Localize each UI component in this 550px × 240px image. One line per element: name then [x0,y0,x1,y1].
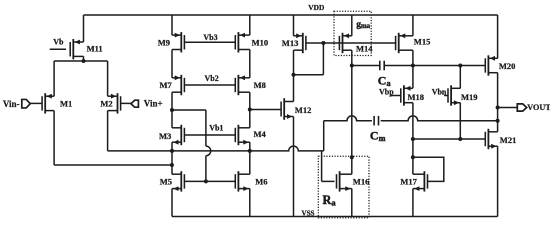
svg-text:Vbp: Vbp [379,87,394,96]
node M13 gate junction [321,41,325,45]
wire M16 source to VSS [351,189,353,217]
node left column at first-stage wire [170,149,174,153]
wire first-stage node with crossover [108,146,324,151]
node Cm right [496,119,500,123]
node tail junction [82,59,86,63]
wire Vb stub to M11 gate [50,48,66,50]
capacitor Cm [373,116,375,126]
node M18 drain / M21 gate wire [411,137,415,141]
wire M6 source to VSS [249,189,251,217]
svg-text:M16: M16 [353,177,370,187]
svg-text:Vin+: Vin+ [144,99,163,109]
wire M19 drain up to M20 gate node [459,66,461,89]
svg-text:M18: M18 [408,92,425,102]
wire M4 source to M6 drain [249,142,251,174]
svg-text:M7: M7 [160,80,173,90]
wire M5 source to VSS [171,189,173,217]
svg-text:M12: M12 [295,105,312,115]
VSS rail [172,216,498,218]
node right column at first-stage wire [248,149,252,153]
svg-text:M11: M11 [87,43,103,53]
svg-text:VSS: VSS [301,209,314,217]
svg-text:Vb1: Vb1 [209,124,223,133]
wire M8 drain node to M12 gate [250,109,281,111]
transistor M21 [487,129,489,149]
transistor M10 [237,32,239,52]
wire Ca node to M20 gate [352,65,380,67]
node M8 drain / M12 gate [248,108,252,112]
transistor M8 [237,75,239,95]
svg-text:M14: M14 [356,44,373,54]
transistor M16 [339,171,341,191]
svg-text:M8: M8 [254,80,266,90]
capacitor Ca [379,61,381,71]
svg-text:M19: M19 [461,92,478,102]
svg-text:M21: M21 [500,135,517,145]
wire M12 source to VSS [293,117,295,217]
wire tail to M1 source [53,61,55,96]
wire feedback riser [322,43,324,75]
wire to M16 gate [322,180,335,182]
wire VDD to M10 source [249,15,251,35]
port Vin+ [131,100,139,107]
wire VOUT down to M21 drain [497,108,499,132]
transistor M17 [423,171,425,191]
wire M13 gate to M14 M15 gates [306,42,396,44]
node M7 drain [170,108,174,112]
wire VDD to M9 source [171,15,173,35]
node M16 drain [350,155,354,159]
wire M1 drain to left column node [54,164,172,166]
wire M9 drain to M7 source [171,50,173,78]
wire M14 drain down to M16 drain [351,50,353,174]
wire Cm from first-stage node to VOUT [324,116,372,121]
wire VDD to M20 source [497,15,499,58]
wire M5-M6 gate line [184,180,235,182]
svg-text:Vb: Vb [53,38,64,47]
wire M17 source to VSS [412,189,414,217]
wire Vin- to M1 gate [30,102,42,104]
wire riser down to M5-M6 gate line [205,110,207,146]
transistor M11 [72,39,74,59]
wire VDD to M13 source [293,15,295,36]
node Ca right / M15-M18 [411,64,415,68]
transistor M7 [180,75,182,95]
svg-text:M5: M5 [160,177,172,187]
wire M20 drain to VOUT [497,73,499,108]
wire VDD to M14 source [351,15,353,36]
wire tail to M2 source [107,61,109,96]
transistor M4 [237,125,239,145]
wire M13 drain to M12 drain [293,50,295,101]
svg-text:VDD: VDD [308,3,324,12]
transistor M1 [44,93,46,113]
transistor M20 [487,55,489,75]
node Ca left [350,64,354,68]
transistor M13 [302,33,304,53]
wire M2 drain down [107,111,109,151]
node M5-M6 gate junction [204,179,208,183]
svg-text:M2: M2 [100,99,112,109]
wire Vb2 gate line [184,84,235,86]
wire VDD to M15 source [412,15,414,36]
wire M11 drain to tail node [83,56,85,61]
wire Vb3 gate line [184,41,235,43]
svg-text:VOUT: VOUT [527,103,550,112]
wire up to Cm level [323,121,325,151]
Ra dashed box [318,156,369,218]
wire tail node [54,60,108,62]
wire M10 drain to M8 source [249,50,251,78]
wire Vb1 gate line [184,134,235,136]
svg-text:M15: M15 [414,37,431,47]
port Vin- [22,99,30,108]
node M19 source / M21 gate wire [458,137,462,141]
wire M21 source to VSS [497,146,499,216]
svg-text:Vb2: Vb2 [205,74,219,83]
port VOUT [517,104,526,111]
wire M8 drain to M4 drain [249,92,251,128]
svg-text:M10: M10 [252,38,269,48]
transistor M12 [283,98,285,120]
wire M2 gate to Vin+ [121,102,131,104]
transistor M2 [117,93,119,113]
svg-text:M17: M17 [400,177,417,187]
wire M11 source to VDD [83,15,85,42]
svg-text:Vbn: Vbn [432,87,447,96]
transistor M18 [403,85,405,105]
wire VOUT to port [498,107,518,109]
gma dashed box [334,11,371,55]
VDD rail [84,14,498,16]
svg-text:M9: M9 [158,38,170,48]
node VOUT [496,106,500,110]
wire M7 drain node to riser [172,109,206,111]
wire M7 drain to M3 drain [171,92,173,128]
transistor M3 [180,125,182,145]
wire M15 drain / Ca to M18 source [412,50,414,88]
node M1 drain / M3 source [170,163,174,167]
wire M19 source down [459,103,461,139]
wire M18-M19 drains to M21 gate [413,138,486,140]
wire M3 source to M5 drain [171,142,173,174]
svg-text:M13: M13 [282,38,299,48]
wire Vbp stub [391,95,401,97]
transistor M9 [180,32,182,52]
wire M1 drain down [53,111,55,165]
svg-text:M20: M20 [499,61,516,71]
svg-text:Vb3: Vb3 [203,33,217,42]
svg-text:M6: M6 [255,177,267,187]
wire M16 gate riser [321,151,323,182]
node M12-M13 drain [292,73,296,77]
transistor M19 [450,85,452,105]
node M19 drain / M20 gate [458,64,462,68]
wire drain node to gate feedback riser [294,74,324,76]
svg-text:Vin-: Vin- [3,99,20,109]
svg-text:M3: M3 [159,131,171,141]
svg-text:M1: M1 [60,99,72,109]
transistor M14 [342,33,344,53]
wire Vbn stub [444,95,448,97]
transistor M5 [180,171,182,191]
wire M18 drain down to M17 drain [412,103,414,175]
transistor M15 [398,33,400,53]
transistor M6 [237,171,239,191]
svg-text:M4: M4 [254,129,267,139]
wire M17 gate to drain loop [413,157,444,181]
node M17 gate tap [411,155,415,159]
